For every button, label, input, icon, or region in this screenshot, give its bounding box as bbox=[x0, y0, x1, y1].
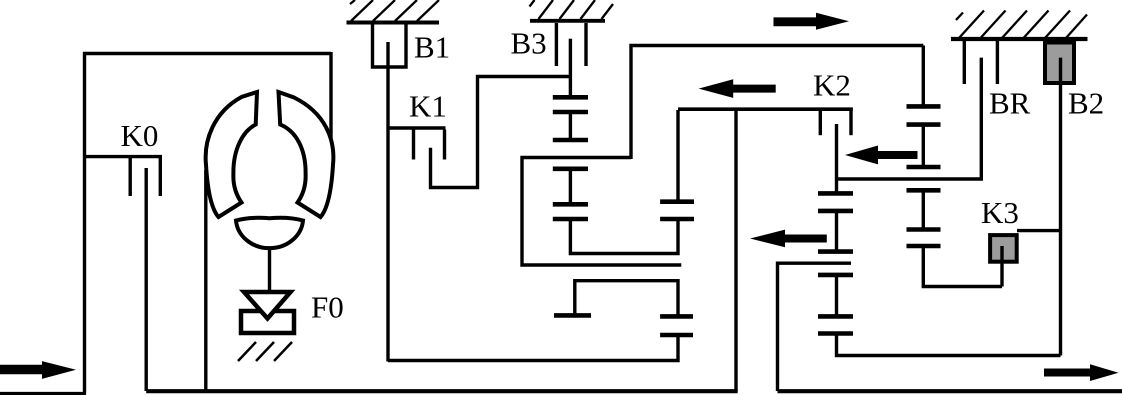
brake B3 plates bbox=[555, 23, 558, 66]
wire K3 link to B2 rod bbox=[1017, 229, 1061, 232]
svg-text:K2: K2 bbox=[813, 68, 851, 103]
clutch K0 bbox=[85, 157, 163, 196]
svg-text:K3: K3 bbox=[981, 195, 1019, 230]
wire K2 hub stem bbox=[835, 124, 838, 179]
svg-text:K1: K1 bbox=[409, 89, 447, 124]
ground hatching B1 bbox=[350, 0, 439, 21]
arrow K2 flow left bbox=[845, 146, 918, 165]
wire bottom-left foot bbox=[0, 392, 86, 395]
wire bottom main line left part bbox=[146, 389, 738, 393]
wire K3 rod bbox=[1000, 246, 1003, 287]
arrow mid flow left bbox=[750, 230, 827, 248]
brake B3 ground bar bbox=[530, 19, 605, 23]
wire turbine shaft left bbox=[204, 170, 207, 391]
freewheel F0 bbox=[241, 292, 294, 333]
gear bars column x=678 lower bbox=[660, 316, 693, 335]
wire sun shaft front: line y=157.5 bbox=[522, 158, 681, 266]
input arrow bbox=[0, 361, 76, 379]
wire K0 output shaft bbox=[144, 168, 147, 391]
wire output of middle set to K1 shaft bbox=[388, 335, 678, 361]
torque converter bbox=[206, 92, 334, 248]
svg-text:F0: F0 bbox=[311, 290, 344, 325]
wire stems column x=923.5 bbox=[922, 46, 925, 107]
svg-text:B2: B2 bbox=[1068, 86, 1104, 121]
gear bars column x=570 bbox=[553, 97, 588, 219]
wire B1/K1 drum shaft bbox=[386, 42, 389, 362]
wire B2 rod bbox=[1059, 58, 1062, 356]
ground hatching right bbox=[956, 11, 1087, 39]
wire bottom main line right part bbox=[778, 389, 1122, 393]
wire x=631 riser to top bbox=[631, 46, 923, 160]
wire B3 shaft bbox=[569, 39, 572, 98]
clutch K3 piston bbox=[990, 235, 1017, 262]
svg-text:B3: B3 bbox=[511, 26, 547, 61]
wire ring coupling rail1 bbox=[570, 219, 678, 254]
svg-text:K0: K0 bbox=[121, 118, 159, 153]
wire carrier rear left x=777.5 and rail bbox=[778, 263, 852, 391]
wire stems column x=570 bbox=[569, 112, 572, 140]
brake BR plates bbox=[963, 41, 966, 84]
arrow top flow right bbox=[774, 13, 850, 30]
wire stem x=678 upper bbox=[676, 110, 679, 202]
svg-text:BR: BR bbox=[989, 86, 1031, 121]
wire input shaft left vertical bbox=[83, 52, 86, 394]
gear bars column x=678 bbox=[660, 202, 694, 219]
wire link y=179 to BR bbox=[837, 58, 982, 179]
clutch K2 bbox=[678, 109, 853, 135]
brake B1 ground bar bbox=[347, 21, 440, 25]
brake B1 band bbox=[373, 24, 407, 67]
wire to K3 bbox=[923, 246, 1002, 287]
wire to B2 rod bbox=[837, 334, 1061, 356]
brake BR ground bar bbox=[951, 37, 1088, 41]
wire carrier cradle rail3 bbox=[575, 281, 678, 317]
ground hatching B3 bbox=[530, 0, 614, 19]
wire K1 hub link bbox=[431, 77, 571, 188]
svg-text:B1: B1 bbox=[414, 30, 450, 65]
clutch K1 bbox=[387, 128, 446, 160]
wire housing right vertical bbox=[329, 52, 332, 155]
ground hatching F0 bbox=[238, 342, 292, 361]
wire stems column x=836 bbox=[835, 179, 838, 193]
arrow output right bbox=[1044, 364, 1119, 381]
gear bars column x=836 bbox=[818, 193, 853, 333]
wire stator shaft bbox=[268, 248, 271, 291]
gear bars column x=923.5 bbox=[907, 106, 941, 246]
brake B2 piston bbox=[1045, 43, 1074, 84]
arrow upper flow left bbox=[699, 79, 776, 98]
gear bar T-foot bbox=[554, 313, 591, 318]
wire drum x=736 bbox=[734, 109, 737, 391]
wire housing top bbox=[83, 52, 331, 55]
